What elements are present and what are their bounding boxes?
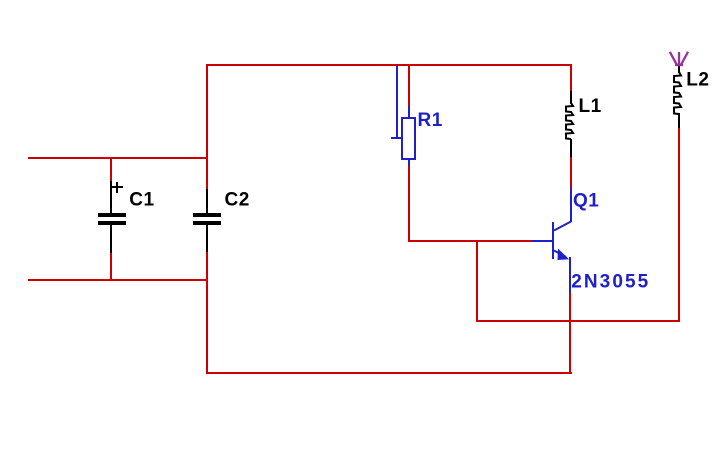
inductor L1 coil: [566, 103, 573, 139]
svg-text:L1: L1: [579, 96, 602, 117]
wire L1 top red: [570, 64, 572, 91]
wire bottom rail: [206, 372, 572, 374]
inductor L1 lead bottom: [570, 139, 572, 157]
transistor Q1 collector diagonal: [554, 222, 571, 231]
wire base horizontal red: [408, 240, 533, 242]
resistor R1 body: [402, 118, 415, 159]
svg-text:C1: C1: [129, 190, 154, 211]
capacitor C2: [206, 189, 208, 213]
transistor Q1 emitter arrow: [558, 249, 570, 261]
wire C1 top red: [110, 157, 112, 182]
inductor L2 lead bottom black: [678, 113, 680, 129]
svg-text:R1: R1: [418, 110, 443, 131]
resistor R1 lead top: [408, 106, 410, 119]
wire collector-emitter tie vertical: [476, 240, 478, 322]
wire R1 feedback blue vertical: [396, 66, 398, 139]
wire R1 to base red vertical: [408, 166, 410, 242]
inductor L2 coil: [674, 72, 681, 114]
wire emitter to antenna horizontal: [476, 320, 680, 322]
inductor L2 antenna lead black top: [678, 65, 680, 73]
transistor Q1 collector lead blue: [570, 188, 572, 222]
transistor Q1 emitter lead blue: [569, 257, 571, 293]
svg-text:2N3055: 2N3055: [571, 272, 650, 293]
transistor Q1 emitter diagonal: [554, 251, 566, 258]
wire top rail: [206, 64, 572, 66]
wire L1 to collector red: [570, 157, 572, 188]
wire C1 bottom red: [110, 252, 112, 281]
antenna: [670, 52, 688, 66]
wire left stub bottom: [28, 279, 207, 281]
svg-text:C2: C2: [225, 190, 250, 211]
transistor Q1 base bar: [552, 222, 554, 259]
wire base horizontal blue: [532, 240, 554, 242]
inductor L1 lead top: [570, 91, 572, 104]
wire R1 feedback T bar: [391, 137, 402, 139]
C1 plus sign: [112, 186, 123, 188]
wire left vertical lower: [206, 252, 208, 374]
wire R1 drop red upper: [408, 64, 410, 107]
wire left vertical upper: [206, 64, 208, 189]
wire left stub top: [28, 157, 207, 159]
svg-text:Q1: Q1: [573, 191, 599, 212]
wire emitter red vertical: [569, 293, 571, 374]
wire L2 red vertical: [678, 128, 680, 322]
resistor R1 lead bottom: [408, 158, 410, 167]
svg-text:L2: L2: [686, 70, 709, 91]
capacitor C1: [110, 181, 112, 213]
